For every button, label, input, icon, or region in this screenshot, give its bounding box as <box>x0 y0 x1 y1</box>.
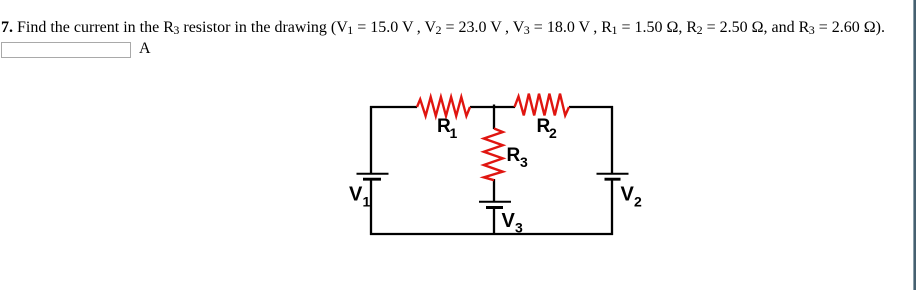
question text <box>1 19 885 37</box>
svg-text:R: R <box>507 145 521 166</box>
svg-text:3: 3 <box>515 220 523 236</box>
wire left side upper <box>370 106 372 173</box>
svg-text:1: 1 <box>450 125 458 141</box>
wire right side upper <box>611 106 613 173</box>
wire left side lower <box>370 180 372 235</box>
svg-text:2: 2 <box>634 194 642 210</box>
wire between R3 and V3 <box>493 179 495 201</box>
right page border <box>913 0 916 290</box>
svg-text:V: V <box>502 210 516 232</box>
svg-text:1: 1 <box>363 194 371 210</box>
unit label A <box>139 40 151 58</box>
svg-text:2: 2 <box>549 125 557 141</box>
wire bottom <box>370 233 613 235</box>
wire top-middle segment <box>470 106 515 108</box>
battery V2 short plate <box>605 178 621 181</box>
svg-text:3: 3 <box>520 154 528 170</box>
answer input box <box>1 42 131 58</box>
svg-text:V: V <box>349 184 363 206</box>
wire right side lower <box>611 180 613 235</box>
wire top-right segment <box>569 106 613 108</box>
battery V3 long plate <box>479 201 511 203</box>
wire below V3 <box>493 208 495 234</box>
resistor R1 <box>417 97 470 116</box>
wire top-left segment <box>370 106 417 108</box>
battery V2 long plate <box>597 173 629 175</box>
battery V1 short plate <box>363 178 381 181</box>
svg-text:V: V <box>621 184 635 206</box>
wire middle stub from top node <box>493 105 495 130</box>
resistor R3 <box>484 129 503 181</box>
resistor R2 <box>515 94 570 116</box>
battery V1 long plate <box>357 173 389 175</box>
battery V3 short plate <box>486 206 503 209</box>
